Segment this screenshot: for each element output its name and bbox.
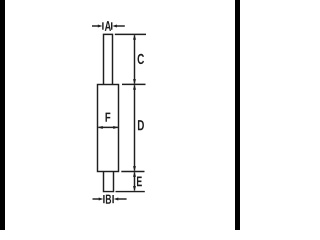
label B	[106, 195, 111, 204]
dim A right tick	[111, 22, 113, 29]
dim A left tick	[102, 22, 104, 29]
dim B right tick	[112, 195, 114, 203]
arrowhead D top (points up)	[133, 85, 136, 90]
dim B right arrow shaft	[117, 198, 126, 200]
dim F arrow shaft	[98, 126, 118, 128]
arrowhead E bottom (points down)	[133, 186, 136, 191]
label D	[138, 120, 144, 130]
arrowhead D bottom (points down)	[133, 166, 136, 171]
arrowhead F left (points left)	[98, 126, 103, 129]
arrowhead A right (points left)	[112, 24, 117, 27]
dim D line	[134, 85, 136, 171]
dim C line	[134, 35, 136, 83]
dim A left arrow shaft	[92, 25, 99, 27]
extension line body-top	[122, 83, 146, 85]
label F	[106, 113, 111, 122]
piston rod (top shaft)	[104, 34, 113, 85]
label E	[137, 176, 142, 186]
arrowhead A left (points right)	[98, 24, 103, 27]
label A	[105, 21, 111, 31]
arrowhead E top (points up)	[133, 172, 136, 177]
arrowhead B right (points left)	[114, 197, 119, 200]
extension line rod-top	[115, 33, 146, 35]
extension line stud-bottom	[116, 191, 145, 193]
arrowhead C top (points up)	[133, 35, 136, 40]
arrowhead C bottom (points down)	[133, 79, 136, 84]
arrowhead B left (points right)	[99, 197, 104, 200]
bottom stud	[104, 172, 114, 192]
label C	[138, 54, 144, 64]
dim A right arrow shaft	[116, 25, 125, 27]
shock body (main cylinder)	[98, 85, 119, 172]
right black border bar	[235, 0, 240, 230]
dim B left tick	[103, 195, 105, 203]
arrowhead F right (points right)	[113, 126, 118, 129]
dim E line	[134, 172, 136, 190]
dim B left arrow shaft	[93, 198, 100, 200]
extension line body-bottom	[121, 171, 144, 173]
left black border bar	[0, 0, 5, 230]
